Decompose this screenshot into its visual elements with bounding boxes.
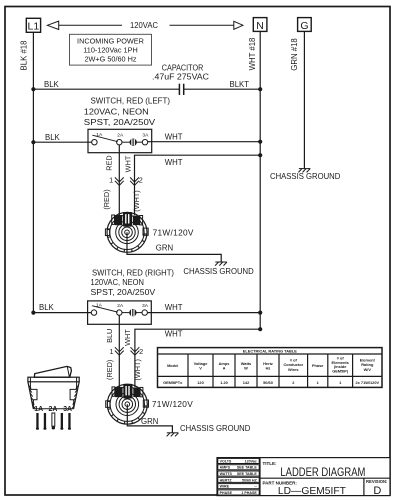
svg-text:BLKT: BLKT <box>230 80 250 89</box>
neon lamp inside S2 <box>129 309 136 316</box>
svg-text:2x 71W/120V: 2x 71W/120V <box>356 380 380 385</box>
node junction left rail / rung4 <box>31 311 35 315</box>
column headers <box>167 355 375 373</box>
svg-text:REVISION:: REVISION: <box>366 479 387 484</box>
svg-text:N: N <box>256 20 264 32</box>
svg-text:2: 2 <box>139 176 143 185</box>
svg-text:SEE TABLE: SEE TABLE <box>237 466 258 470</box>
connector chevrons wire1 lamp1 <box>115 177 124 185</box>
svg-text:1A: 1A <box>96 132 103 138</box>
svg-text:1: 1 <box>109 347 113 356</box>
svg-text:WHT: WHT <box>165 330 183 339</box>
svg-text:SEE TABLE: SEE TABLE <box>237 472 258 476</box>
svg-text:(RED): (RED) <box>102 189 111 209</box>
chassis ground symbol (lamp2) <box>167 433 179 437</box>
svg-text:(WHT): (WHT) <box>132 190 141 211</box>
connector chevrons wire1 lamp2 <box>115 347 124 355</box>
svg-text:ELECTRICAL RATING TABLE: ELECTRICAL RATING TABLE <box>243 349 297 354</box>
rail L1 (left vertical) <box>32 32 34 313</box>
svg-text:WIRE: WIRE <box>220 485 230 489</box>
svg-text:3A: 3A <box>142 133 149 139</box>
svg-text:BLK #18: BLK #18 <box>20 41 29 71</box>
rail N (vertical) <box>259 31 261 329</box>
svg-text:(WHT): (WHT) <box>133 359 142 380</box>
svg-text:1A: 1A <box>34 406 43 413</box>
lamp DS1 71W/120V <box>105 212 148 252</box>
lamp DS2 71W/120V <box>106 384 149 424</box>
label switch S1 description <box>84 97 171 128</box>
svg-text:2A: 2A <box>48 406 57 413</box>
wire lamp2 feed (BLU from S2 2A) <box>118 315 120 387</box>
svg-text:GRN #18: GRN #18 <box>290 38 299 71</box>
svg-text:INCOMING POWER: INCOMING POWER <box>77 37 144 46</box>
svg-text:50/60: 50/60 <box>263 380 273 385</box>
connector chevrons wire2 lamp2 <box>131 347 140 355</box>
svg-text:SWITCH, RED (LEFT): SWITCH, RED (LEFT) <box>91 97 171 106</box>
svg-text:110-120Vac 1PH: 110-120Vac 1PH <box>83 45 138 54</box>
svg-text:120: 120 <box>197 380 204 385</box>
svg-text:120Vac: 120Vac <box>245 459 257 463</box>
svg-text:Wires: Wires <box>288 367 299 372</box>
svg-text:GRN: GRN <box>141 417 158 426</box>
table data row <box>163 380 379 385</box>
wire rung 4 right (WHT to N) <box>147 312 260 314</box>
svg-text:120VAC, NEON: 120VAC, NEON <box>91 278 145 287</box>
svg-text:SPST, 20A/250V: SPST, 20A/250V <box>91 288 157 297</box>
svg-text:LADDER DIAGRAM: LADDER DIAGRAM <box>280 465 365 479</box>
svg-text:1.20: 1.20 <box>220 380 228 385</box>
switch S1 (SPST w/ neon) <box>88 129 152 152</box>
svg-text:142: 142 <box>243 380 250 385</box>
title block data table (left) <box>218 458 259 495</box>
electrical rating table <box>158 348 383 388</box>
svg-text:W/V: W/V <box>364 367 372 372</box>
chassis ground symbol (G rail) <box>298 169 310 173</box>
wire lamp1 ground (GRN) <box>127 232 221 262</box>
svg-text:L1: L1 <box>28 21 40 33</box>
wire rung 2 right (WHT to N) <box>148 141 261 143</box>
svg-text:BLU: BLU <box>105 329 114 343</box>
wire lamp1 feed (RED from S1 2A) <box>118 145 120 215</box>
terminal N <box>253 18 267 32</box>
svg-text:WHT: WHT <box>165 158 183 167</box>
svg-text:WHT #18: WHT #18 <box>248 38 257 71</box>
node junction N rail / rung1 <box>258 87 262 91</box>
wire rung 2 left (BLK to switch S1) <box>33 141 91 143</box>
svg-text:BLK: BLK <box>39 303 55 312</box>
svg-text:2W+G 50/60 Hz: 2W+G 50/60 Hz <box>84 54 136 63</box>
svg-text:50/60 HZ: 50/60 HZ <box>242 478 258 482</box>
svg-text:2A: 2A <box>117 303 124 309</box>
svg-text:120VAC: 120VAC <box>130 21 158 30</box>
node junction left rail / rung2 <box>31 140 35 144</box>
svg-text:LD—GEM5IFT: LD—GEM5IFT <box>278 485 347 497</box>
svg-text:(RED): (RED) <box>105 360 114 380</box>
svg-text:GEM5IP): GEM5IP) <box>332 369 349 374</box>
rocker switch pin labels 1A 2A 3A <box>34 406 72 413</box>
terminal G <box>298 18 312 32</box>
svg-text:CHASSIS GROUND: CHASSIS GROUND <box>183 267 254 276</box>
note box INCOMING POWER <box>70 34 152 65</box>
svg-text:2: 2 <box>139 347 143 356</box>
wire rung 1 left (BLK) <box>33 88 179 90</box>
lamp DS2 side tabs <box>106 401 110 408</box>
wire lamp2 return (WHT to N) <box>135 329 260 387</box>
svg-text:Phase: Phase <box>312 363 324 368</box>
svg-text:PHASE: PHASE <box>220 491 233 495</box>
rocker switch pictorial SW (bezel band) <box>28 377 79 389</box>
svg-text:GRN: GRN <box>156 243 173 252</box>
svg-text:G: G <box>300 20 308 32</box>
svg-text:1: 1 <box>109 176 113 185</box>
connector chevrons wire2 lamp1 <box>130 177 139 185</box>
svg-text:D: D <box>373 485 381 497</box>
svg-text:CHASSIS GROUND: CHASSIS GROUND <box>180 424 251 433</box>
svg-text:3A: 3A <box>142 303 149 309</box>
svg-text:BLK: BLK <box>44 80 60 89</box>
svg-text:WHT: WHT <box>123 155 132 172</box>
svg-text:BLK: BLK <box>45 133 61 142</box>
switch S2 (SPST w/ neon) <box>88 301 152 324</box>
svg-text:RED: RED <box>105 155 114 170</box>
svg-text:A: A <box>223 366 226 371</box>
svg-text:VOLTS: VOLTS <box>220 459 232 463</box>
wire lamp1 return (WHT to N) <box>135 155 261 215</box>
arrowhead right (open, toward N) <box>234 21 243 29</box>
svg-text:CAPACITOR: CAPACITOR <box>162 64 204 73</box>
svg-text:2A: 2A <box>117 132 124 138</box>
switch blade S2 <box>92 306 118 312</box>
rail G (vertical) <box>303 31 305 168</box>
svg-text:120VAC, NEON: 120VAC, NEON <box>84 108 149 117</box>
node junction left rail / rung1 <box>31 87 35 91</box>
rocker switch pictorial SW (body sides, hatched) <box>28 382 79 409</box>
lamp DS1 side tabs <box>105 229 109 236</box>
rocker switch pins <box>36 413 71 430</box>
arrowhead left (open, toward L1) <box>47 21 58 29</box>
svg-text:Hz: Hz <box>266 366 271 371</box>
label switch S2 description <box>91 269 175 298</box>
svg-text:WHT: WHT <box>165 133 183 142</box>
node junction N rail / rung4 <box>258 311 262 315</box>
svg-text:71W/120V: 71W/120V <box>153 227 194 237</box>
svg-text:HERTZ: HERTZ <box>220 478 233 482</box>
wire lamp2 ground (GRN) <box>127 404 172 433</box>
node junction N rail / rung2 <box>258 140 262 144</box>
capacitor C1 .47uF 275VAC <box>179 84 183 95</box>
svg-text:SPST, 20A/250V: SPST, 20A/250V <box>84 118 156 127</box>
svg-text:71W/120V: 71W/120V <box>152 399 193 409</box>
rocker switch pictorial SW (actuator) <box>34 366 71 377</box>
svg-text:WHT: WHT <box>123 329 132 346</box>
svg-text:AMPS: AMPS <box>220 466 231 470</box>
terminal L1 <box>26 18 40 32</box>
svg-text:W: W <box>244 366 248 371</box>
svg-text:GEM5IPTx: GEM5IPTx <box>163 380 183 385</box>
rocker switch pictorial SW (mounting ears + bottom) <box>30 389 76 408</box>
svg-text:1A: 1A <box>96 303 103 309</box>
chassis ground symbol (lamp1) <box>215 262 227 266</box>
svg-text:WHT: WHT <box>165 303 183 312</box>
svg-text:TITLE:: TITLE: <box>263 461 277 466</box>
svg-text:CHASSIS GROUND: CHASSIS GROUND <box>270 172 341 181</box>
svg-text:.47uF 275VAC: .47uF 275VAC <box>152 73 209 82</box>
neon lamp inside S1 <box>130 139 137 146</box>
node junction N rail / lamp2 return <box>258 327 262 331</box>
switch blade S1 <box>92 135 117 142</box>
wire 120VAC top line <box>59 24 235 26</box>
svg-text:SWITCH, RED (RIGHT): SWITCH, RED (RIGHT) <box>92 269 174 278</box>
svg-text:V: V <box>199 366 202 371</box>
title block <box>217 458 390 498</box>
wire rung 4 left (BLK to switch S2) <box>33 312 91 314</box>
svg-text:1 PHASE: 1 PHASE <box>241 491 257 495</box>
lamp DS2 terminals <box>112 387 115 396</box>
svg-text:Model: Model <box>167 363 178 368</box>
node junction N rail / lamp1 return <box>258 153 262 157</box>
wire rung 1 right (BLKT) <box>184 88 260 90</box>
svg-text:3A: 3A <box>63 406 72 413</box>
lamp DS1 terminals <box>112 215 115 224</box>
svg-text:WATTS: WATTS <box>220 472 233 476</box>
